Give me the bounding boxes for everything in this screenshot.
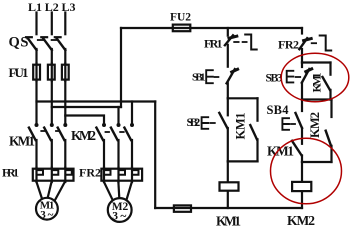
label KM1 bottom (216, 214, 241, 229)
svg-text:KM2: KM2 (71, 128, 96, 143)
switch QS pole 2 (41, 37, 52, 50)
svg-text:FR1: FR1 (204, 37, 223, 51)
fuse FU2 (173, 25, 191, 32)
wire control bottom rail (155, 207, 302, 209)
pushbutton SB4 (NO start) (282, 113, 302, 130)
wire node3 to KM1 coil (227, 161, 229, 181)
contact KM2 aux self-hold (326, 100, 332, 163)
svg-text:SB1: SB1 (192, 72, 206, 84)
wire L1 drop to QS (35, 13, 37, 35)
wire phase1 FU1 to KM1 contact (35, 81, 37, 124)
wire QS to FU1 pole 2 (51, 49, 53, 64)
motor M2 (108, 198, 132, 223)
contactor KM1 main contact pole2 (44, 123, 54, 168)
wire tap A phase1 to control return (37, 100, 156, 102)
wire control feed riser (120, 28, 122, 107)
svg-text:KM1: KM1 (9, 134, 35, 149)
svg-text:FU2: FU2 (170, 12, 191, 24)
label KM1 interlock (267, 144, 294, 159)
label SB1 (192, 72, 206, 84)
wire loop1 bottom (228, 160, 258, 162)
node L1 (28, 0, 42, 14)
KM2 main linkage dashes (106, 131, 124, 133)
label KM2 rotated (308, 112, 322, 138)
fuse FU1 pole 1 (33, 64, 40, 82)
wire control return drop (154, 102, 156, 209)
thermal relay FR2 heater box (101, 168, 142, 182)
node L2 (45, 0, 59, 14)
label FU2 (170, 12, 191, 24)
annotation red ellipse 1 (281, 53, 349, 102)
svg-text:KM1: KM1 (267, 144, 294, 159)
pushbutton SB2 (NO start) (202, 113, 228, 129)
wire L3 drop to QS (64, 13, 66, 35)
thermal contact FR1 (NC) (225, 35, 237, 45)
wire loop1 top (self-hold branch) (228, 97, 258, 99)
fuse FU1 pole 2 (48, 64, 55, 82)
wire FR1 to motor M1 leads (37, 182, 65, 200)
motor M1 (36, 198, 58, 221)
label SB3 (266, 73, 283, 85)
svg-text:FR1: FR1 (2, 166, 19, 180)
wire FR1 to SB1 (227, 45, 229, 67)
wire phase3 FU1 to KM1 contact (64, 81, 66, 124)
pushbutton SB3 (NC) (287, 69, 312, 83)
FR2 dashed link (312, 42, 316, 44)
thermal relay FR1 heater box (33, 168, 74, 182)
label KM1 rotated self-hold (234, 113, 248, 140)
pushbutton SB1 (NC stop) (206, 69, 237, 83)
wire phase2 FU1 to KM1 contact (51, 81, 53, 124)
wire KM1 coil to bottom rail (227, 192, 229, 208)
label FR1 control (204, 37, 223, 51)
label KM1 main (9, 134, 35, 149)
label KM2 bottom (287, 213, 315, 228)
contactor KM2 main contact pole3 (124, 123, 134, 168)
svg-text:3~: 3~ (40, 209, 53, 221)
coil KM2 (292, 182, 311, 191)
wire KM2 pole3 drop (131, 102, 133, 124)
wire QS to FU1 pole 3 (64, 49, 66, 64)
label FR2 box (79, 166, 101, 180)
coil KM1 (220, 182, 239, 190)
wire branch2 top stub (301, 28, 303, 34)
wire KM2 coil to bottom rail (301, 192, 303, 208)
FR1 dashed link (234, 41, 246, 43)
wire L2 drop to QS (51, 13, 53, 35)
wire branch1 top stub (227, 28, 229, 36)
wire FR2 to motor M2 leads (104, 182, 132, 200)
contactor KM1 main contact pole3 (58, 123, 68, 168)
svg-text:SB2: SB2 (187, 115, 201, 129)
contact KM1 interlock (circled) (292, 141, 302, 162)
svg-text:QS: QS (9, 35, 29, 51)
contactor KM1 main contact pole1 (29, 123, 39, 168)
label FU1 (9, 65, 29, 80)
wire SB3 top stub (301, 63, 303, 68)
wire SB4 top stub (301, 100, 303, 112)
wire control top rail (121, 27, 302, 29)
svg-text:KM2: KM2 (287, 213, 315, 228)
wire node to KM2 coil (301, 162, 303, 181)
svg-text:KM1: KM1 (216, 214, 241, 229)
svg-text:KM1: KM1 (310, 73, 324, 93)
label QS (9, 35, 29, 51)
FR1 heater element (245, 35, 257, 50)
contact KM1 aux self-hold (250, 98, 257, 161)
wire SB1 to node2 (227, 83, 229, 98)
annotation red ellipse 2 (271, 138, 342, 204)
label FR2 control (278, 38, 299, 52)
wire SB4 to KM1 interlock (301, 128, 303, 144)
wire loop2 top (302, 61, 331, 63)
svg-text:FU1: FU1 (9, 65, 29, 80)
svg-text:SB3: SB3 (266, 73, 283, 85)
wire KM2 pole2 drop (117, 107, 119, 124)
label KM2 main (71, 128, 96, 143)
thermal contact FR2 (NC) (299, 38, 311, 49)
fuse FU1 pole 3 (62, 64, 69, 82)
fuse FU2 lower (174, 205, 191, 211)
svg-text:L1: L1 (28, 0, 42, 14)
switch QS pole 3 (55, 37, 66, 50)
wire loop3 bottom (302, 161, 332, 163)
contact KM1 aux (sequence, circled) (323, 63, 331, 100)
svg-text:KM1: KM1 (234, 113, 248, 140)
svg-text:KM2: KM2 (308, 112, 322, 138)
wire FR2 to node1 (301, 49, 303, 63)
wire loop2 bottom (302, 98, 332, 100)
svg-text:FR2: FR2 (79, 166, 101, 180)
label SB2 (187, 115, 201, 129)
KM1 main linkage dashes (41, 130, 59, 132)
label FR1 box (2, 166, 19, 180)
wire QS to FU1 pole 1 (35, 49, 37, 64)
label SB4 (267, 103, 290, 117)
label KM1 rotated circled (310, 73, 324, 93)
wire tap B phase2 to control feed (52, 106, 121, 108)
wire tap C phase3 to KM2 pole1 (65, 116, 104, 124)
contactor KM2 main contact pole1 (96, 123, 106, 168)
node L3 (62, 0, 76, 14)
wire SB3 to node2b (301, 83, 303, 100)
FR2 heater element (320, 36, 332, 51)
contactor KM2 main contact pole2 (111, 123, 121, 168)
switch QS linkage dashes (38, 39, 57, 41)
switch QS pole 1 (26, 37, 37, 50)
wire SB2 top stub (227, 98, 229, 115)
svg-text:L3: L3 (62, 0, 76, 14)
svg-text:SB4: SB4 (267, 103, 290, 117)
wire SB2 to node3 (227, 128, 229, 161)
svg-text:FR2: FR2 (278, 38, 299, 52)
